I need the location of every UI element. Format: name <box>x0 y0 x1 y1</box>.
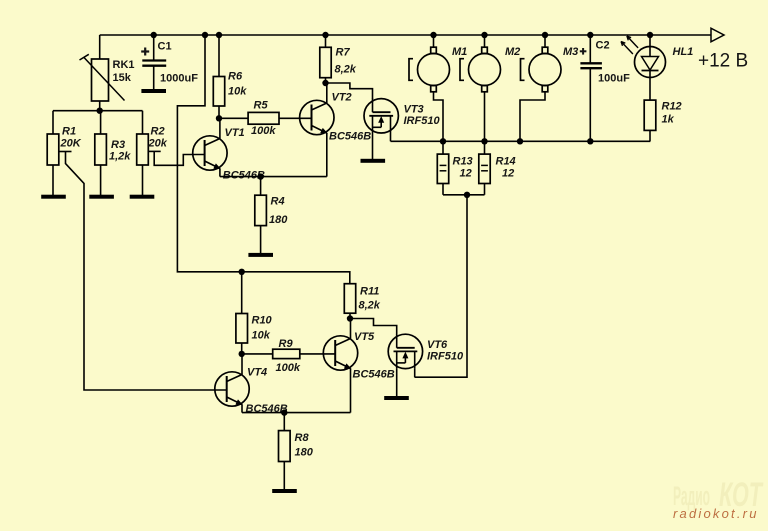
label R4 180 <box>269 196 288 227</box>
svg-text:radiokot.ru: radiokot.ru <box>673 506 759 521</box>
label R3 1,2k <box>109 139 131 163</box>
wire VT4 collector <box>241 354 243 375</box>
wire M1 bottom <box>434 92 447 145</box>
MOSFET VT6 <box>388 334 422 368</box>
wire VT2 emitter <box>326 134 328 177</box>
label +12 В <box>698 51 748 72</box>
svg-text:1k: 1k <box>662 114 675 126</box>
svg-text:IRF510: IRF510 <box>427 351 464 363</box>
label VT1 BC546B <box>223 127 265 182</box>
svg-text:BC546B: BC546B <box>353 369 395 381</box>
transistor VT2 <box>300 100 334 134</box>
label R14 12 <box>496 156 516 180</box>
wire M3 top <box>542 32 548 47</box>
wire R2 wiper to VT1 base <box>148 151 204 165</box>
ground R3 <box>89 195 114 199</box>
node R13 R14 bottom <box>443 192 485 198</box>
label VT4 BC546B <box>246 367 288 416</box>
resistor R6 <box>213 32 224 119</box>
wire C2 bottom <box>587 68 593 144</box>
resistor R10 <box>236 269 248 354</box>
svg-text:180: 180 <box>295 447 314 459</box>
motor M1 <box>409 47 450 92</box>
resistor R13 <box>437 141 448 195</box>
label VT3 IRF510 <box>404 104 441 128</box>
wire VT6 source to ground <box>396 369 398 397</box>
wire M3 bottom <box>517 92 545 145</box>
wire M2 top <box>481 32 487 47</box>
svg-text:R14: R14 <box>496 156 516 168</box>
svg-text:100k: 100k <box>276 362 301 374</box>
svg-text:R9: R9 <box>279 338 294 350</box>
wire VT5 collector to VT6 gate <box>350 319 397 335</box>
wire VT3 drain to motor rail <box>390 133 392 141</box>
svg-text:R5: R5 <box>254 100 269 112</box>
resistor R11 <box>344 284 355 319</box>
svg-text:M3: M3 <box>563 46 578 58</box>
label M2 <box>505 46 520 58</box>
capacitor C1 <box>141 48 166 66</box>
svg-text:100k: 100k <box>251 125 276 137</box>
svg-text:R3: R3 <box>111 139 125 151</box>
svg-text:HL1: HL1 <box>673 46 694 58</box>
resistor R2 <box>137 111 149 195</box>
resistor R12 <box>644 100 656 141</box>
label C2 100uF <box>596 40 631 85</box>
resistor R9 <box>242 349 336 358</box>
wire M2 bottom <box>481 92 487 145</box>
label VT5 BC546B <box>353 331 395 381</box>
wire VT2 collector to VT3 gate <box>326 83 373 99</box>
wire HL1 top <box>647 32 653 47</box>
svg-text:R1: R1 <box>62 126 76 138</box>
ground R1 <box>41 195 66 199</box>
svg-text:C1: C1 <box>158 41 172 53</box>
thermistor RK1 <box>80 54 125 101</box>
svg-text:M1: M1 <box>452 46 467 58</box>
svg-text:VT6: VT6 <box>427 339 448 351</box>
wire C1 top <box>151 32 157 61</box>
LED arrows <box>621 36 638 54</box>
svg-text:180: 180 <box>269 214 288 226</box>
resistor R4 <box>255 177 267 254</box>
svg-text:20K: 20K <box>60 138 82 150</box>
wire +12V top rail <box>100 34 711 36</box>
svg-text:VT2: VT2 <box>332 92 352 104</box>
svg-text:R11: R11 <box>360 286 379 298</box>
ground VT6 <box>384 396 409 400</box>
wire emitter rail VT4 VT5 <box>242 409 351 415</box>
wire VT5 emitter <box>350 369 352 413</box>
svg-text:R13: R13 <box>453 156 473 168</box>
wire VT4 emitter <box>241 405 243 413</box>
power arrow <box>711 28 724 42</box>
wire emitter rail VT1 VT2 <box>220 173 327 179</box>
svg-text:8,2k: 8,2k <box>335 64 357 76</box>
svg-text:M2: M2 <box>505 46 520 58</box>
svg-text:12: 12 <box>460 168 472 180</box>
transistor VT5 <box>323 336 357 370</box>
LED HL1 <box>635 47 666 78</box>
ground VT3 <box>361 159 386 163</box>
label R9 100k <box>276 338 301 374</box>
transistor VT4 <box>215 372 249 406</box>
label RK1 15k <box>113 59 135 84</box>
watermark radiokot.ru <box>673 506 759 521</box>
wire R1 wiper <box>59 152 227 391</box>
label C1 1000uF <box>158 41 199 85</box>
svg-text:VT5: VT5 <box>354 331 375 343</box>
svg-text:10k: 10k <box>252 330 271 342</box>
resistor R1 <box>47 111 59 195</box>
svg-text:BC546B: BC546B <box>329 131 371 143</box>
capacitor C2 <box>580 48 602 68</box>
MOSFET VT3 <box>364 99 398 133</box>
ground R8 <box>272 489 297 493</box>
wire rail to RK1 top <box>99 35 101 59</box>
wire VT3 source to ground <box>372 133 374 159</box>
resistor R14 <box>479 141 490 195</box>
node R10 R9 VT4 collector <box>239 351 245 357</box>
label R12 1k <box>662 101 682 126</box>
resistor R5 <box>219 112 312 124</box>
wire +12V feed to lower stage <box>177 32 349 284</box>
wire VT5 collector <box>350 319 352 339</box>
svg-text:20k: 20k <box>148 138 168 150</box>
svg-text:R10: R10 <box>252 315 273 327</box>
motor M3 <box>521 47 562 92</box>
svg-text:15k: 15k <box>113 72 132 84</box>
svg-text:8,2k: 8,2k <box>359 300 381 312</box>
wire motor rail <box>391 140 651 142</box>
motor M2 <box>460 47 501 92</box>
node VT1 collector / R5 <box>216 115 222 121</box>
svg-text:R8: R8 <box>295 432 310 444</box>
label R6 10k <box>228 71 247 98</box>
label HL1 <box>673 46 694 58</box>
wire C1 bottom <box>153 66 155 90</box>
label R8 180 <box>295 432 314 459</box>
wire VT6 drain <box>414 369 416 378</box>
svg-text:+12 В: +12 В <box>698 51 748 72</box>
wire M1 top <box>430 32 436 47</box>
wire C2 top <box>587 32 593 64</box>
svg-text:R6: R6 <box>228 71 243 83</box>
wire HL1 to R12 <box>649 78 651 101</box>
ground R4 <box>248 253 273 257</box>
svg-text:VT3: VT3 <box>404 104 424 116</box>
label M3 <box>563 46 578 58</box>
label R13 12 <box>453 156 473 180</box>
wire VT1 emitter <box>219 169 221 177</box>
svg-text:R12: R12 <box>662 101 682 113</box>
svg-text:C2: C2 <box>596 40 610 52</box>
svg-text:1000uF: 1000uF <box>160 73 198 85</box>
watermark Радио КОТ <box>673 476 764 514</box>
label R2 20k <box>148 126 168 150</box>
wire RK1 bottom to divider rail <box>99 101 101 111</box>
wire R13R14 to VT6 drain <box>415 195 468 377</box>
node VT2 collector / VT3 gate <box>322 80 328 86</box>
label VT2 BC546B <box>329 92 371 143</box>
resistor R7 <box>320 32 331 83</box>
resistor R8 <box>279 413 291 490</box>
ground R2 <box>130 195 155 199</box>
svg-text:10k: 10k <box>228 86 247 98</box>
resistor R3 <box>95 111 107 195</box>
label VT6 IRF510 <box>427 339 464 363</box>
node VT5 collector / VT6 gate <box>347 315 353 321</box>
label R11 8,2k <box>359 286 381 312</box>
wire VT1 collector <box>219 118 221 138</box>
svg-text:IRF510: IRF510 <box>404 115 441 127</box>
svg-text:RK1: RK1 <box>113 59 135 71</box>
svg-text:100uF: 100uF <box>598 73 630 85</box>
label M1 <box>452 46 467 58</box>
label R1 20K <box>60 126 82 150</box>
svg-text:R2: R2 <box>151 126 165 138</box>
label R5 100k <box>251 100 276 138</box>
label R10 10k <box>252 315 273 342</box>
wire VT2 collector <box>326 83 328 103</box>
svg-text:12: 12 <box>502 168 514 180</box>
transistor VT1 <box>193 136 227 170</box>
label R7 8,2k <box>335 47 357 76</box>
svg-text:R7: R7 <box>336 47 351 59</box>
node divider rail <box>53 108 143 114</box>
svg-text:R4: R4 <box>271 196 285 208</box>
svg-text:VT4: VT4 <box>247 367 267 379</box>
svg-text:VT1: VT1 <box>225 127 245 139</box>
svg-text:1,2k: 1,2k <box>109 151 131 163</box>
ground C1 <box>141 89 166 93</box>
